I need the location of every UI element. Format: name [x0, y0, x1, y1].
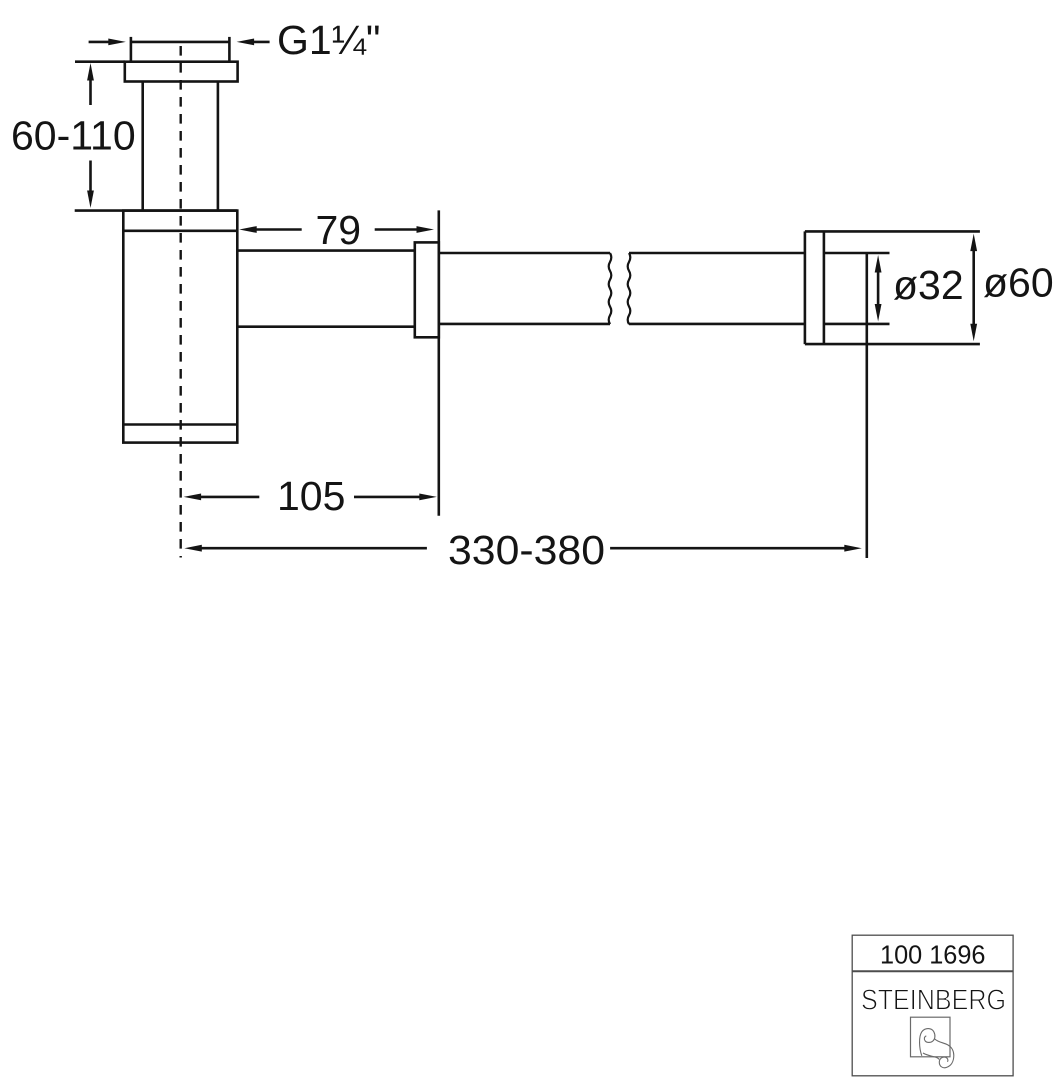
siphon body outline	[123, 211, 237, 443]
dimension G1 1/4 extension tick right	[228, 37, 231, 62]
pipe break wavy line left	[609, 253, 612, 324]
svg-text:105: 105	[277, 473, 345, 519]
title block box	[852, 935, 1013, 1076]
outlet pipe bottom line	[237, 325, 414, 328]
tailpipe right wall	[217, 82, 220, 211]
pipe break wavy line right	[628, 253, 631, 324]
dimension 60-110 top extension line	[75, 60, 125, 63]
svg-text:ø32: ø32	[893, 262, 964, 308]
horizontal pipe right segment (break to flange)	[629, 253, 805, 324]
svg-text:330-380: 330-380	[448, 527, 605, 573]
dimension o60 double arrow	[970, 234, 977, 342]
logo swirl	[920, 1029, 954, 1068]
svg-text:G1¼": G1¼"	[277, 17, 380, 63]
dimension 60-110 vertical line with arrows	[87, 63, 94, 208]
outlet pipe top line	[237, 249, 414, 252]
tailpipe left wall	[141, 82, 144, 211]
svg-text:ø60: ø60	[983, 260, 1054, 306]
dimension G1 1/4 extension tick left	[130, 37, 133, 62]
centerline dashed	[179, 46, 181, 558]
svg-text:79: 79	[316, 207, 362, 253]
top flange of tailpipe	[125, 62, 238, 82]
dimension G1 1/4 arrow left	[89, 39, 126, 46]
dimension 79 line right with arrow	[375, 226, 434, 233]
siphon body bottom cap line	[123, 423, 237, 426]
title block divider	[852, 970, 1013, 972]
svg-text:STEINBERG: STEINBERG	[861, 985, 1006, 1017]
dimension G1 1/4 line	[131, 41, 230, 44]
svg-text:60-110: 60-110	[11, 113, 136, 159]
siphon body lid line	[123, 230, 237, 233]
dimension 105 line right with arrow	[354, 494, 437, 501]
wall flange bottom line with o60 extension	[805, 343, 980, 346]
extension line at nut (79/105 dimension)	[437, 210, 440, 515]
dimension G1 1/4 arrow right	[237, 39, 270, 46]
logo square	[911, 1017, 951, 1057]
dimension 330-380 arrow left	[184, 545, 427, 552]
wall flange top line with o60 extension	[805, 230, 980, 233]
dimension 330-380 line right with arrow	[610, 545, 862, 552]
pipe end vertical (330-380 extension)	[865, 253, 868, 558]
wall flange right edge	[823, 231, 826, 344]
compression nut	[415, 242, 439, 337]
dimension 105 arrow left	[184, 494, 260, 501]
dimension o32 double arrow	[875, 255, 882, 322]
horizontal pipe left segment (nut to break)	[439, 253, 610, 324]
svg-text:100 1696: 100 1696	[880, 940, 986, 970]
wall flange left edge	[804, 231, 807, 344]
pipe lines after flange with o32 extension	[824, 253, 890, 324]
dimension 79 arrow left	[239, 226, 302, 233]
siphon body top edge extended left (60-110 bottom extension)	[75, 209, 238, 212]
